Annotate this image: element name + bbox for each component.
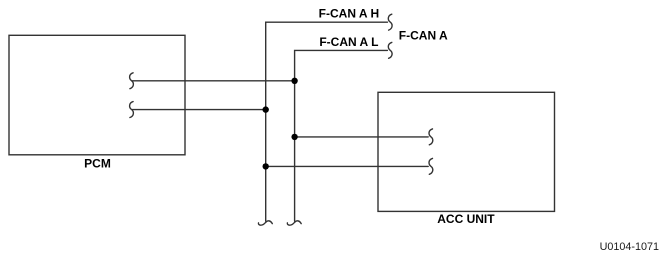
svg-text:F-CAN A L: F-CAN A L <box>319 35 378 49</box>
ACC UNIT box <box>378 92 555 211</box>
break symbol on ACC UNIT pin 1 wire <box>429 129 433 145</box>
break symbol on F-CAN A H wire end <box>388 14 392 30</box>
break symbol on PCM pin 1 wire <box>130 73 134 89</box>
break symbol at bottom of F-CAN A L bus <box>287 221 301 225</box>
junction dot: PCM pin 2 / F-CAN A H bus <box>263 106 269 112</box>
break symbol on F-CAN A L wire end <box>388 42 392 58</box>
break symbol on ACC UNIT pin 2 wire <box>429 158 433 174</box>
PCM unit box <box>9 35 185 155</box>
svg-text:F-CAN A: F-CAN A <box>399 29 448 43</box>
junction dot: ACC pin 1 / F-CAN A L bus <box>291 134 297 140</box>
break symbol on PCM pin 2 wire <box>130 102 134 118</box>
junction dot: ACC pin 2 / F-CAN A H bus <box>263 163 269 169</box>
wire: F-CAN A H bus to ACC UNIT pin 2 <box>266 165 429 167</box>
break symbol at bottom of F-CAN A H bus <box>258 221 272 225</box>
svg-text:ACC UNIT: ACC UNIT <box>437 212 495 226</box>
wire: PCM pin 1 to F-CAN A L bus <box>132 80 294 82</box>
wire: F-CAN A L bus to ACC UNIT pin 1 <box>295 136 429 138</box>
wire: PCM pin 2 to F-CAN A H bus <box>132 109 265 111</box>
svg-text:PCM: PCM <box>84 156 111 170</box>
junction dot: PCM pin 1 / F-CAN A L bus <box>291 78 297 84</box>
wire: F-CAN A H bus (top horizontal + left vertical) <box>266 22 388 221</box>
svg-text:F-CAN A H: F-CAN A H <box>319 6 379 20</box>
svg-text:U0104-1071: U0104-1071 <box>600 241 659 253</box>
wire: F-CAN A L bus (second horizontal + right vertical) <box>295 50 388 221</box>
